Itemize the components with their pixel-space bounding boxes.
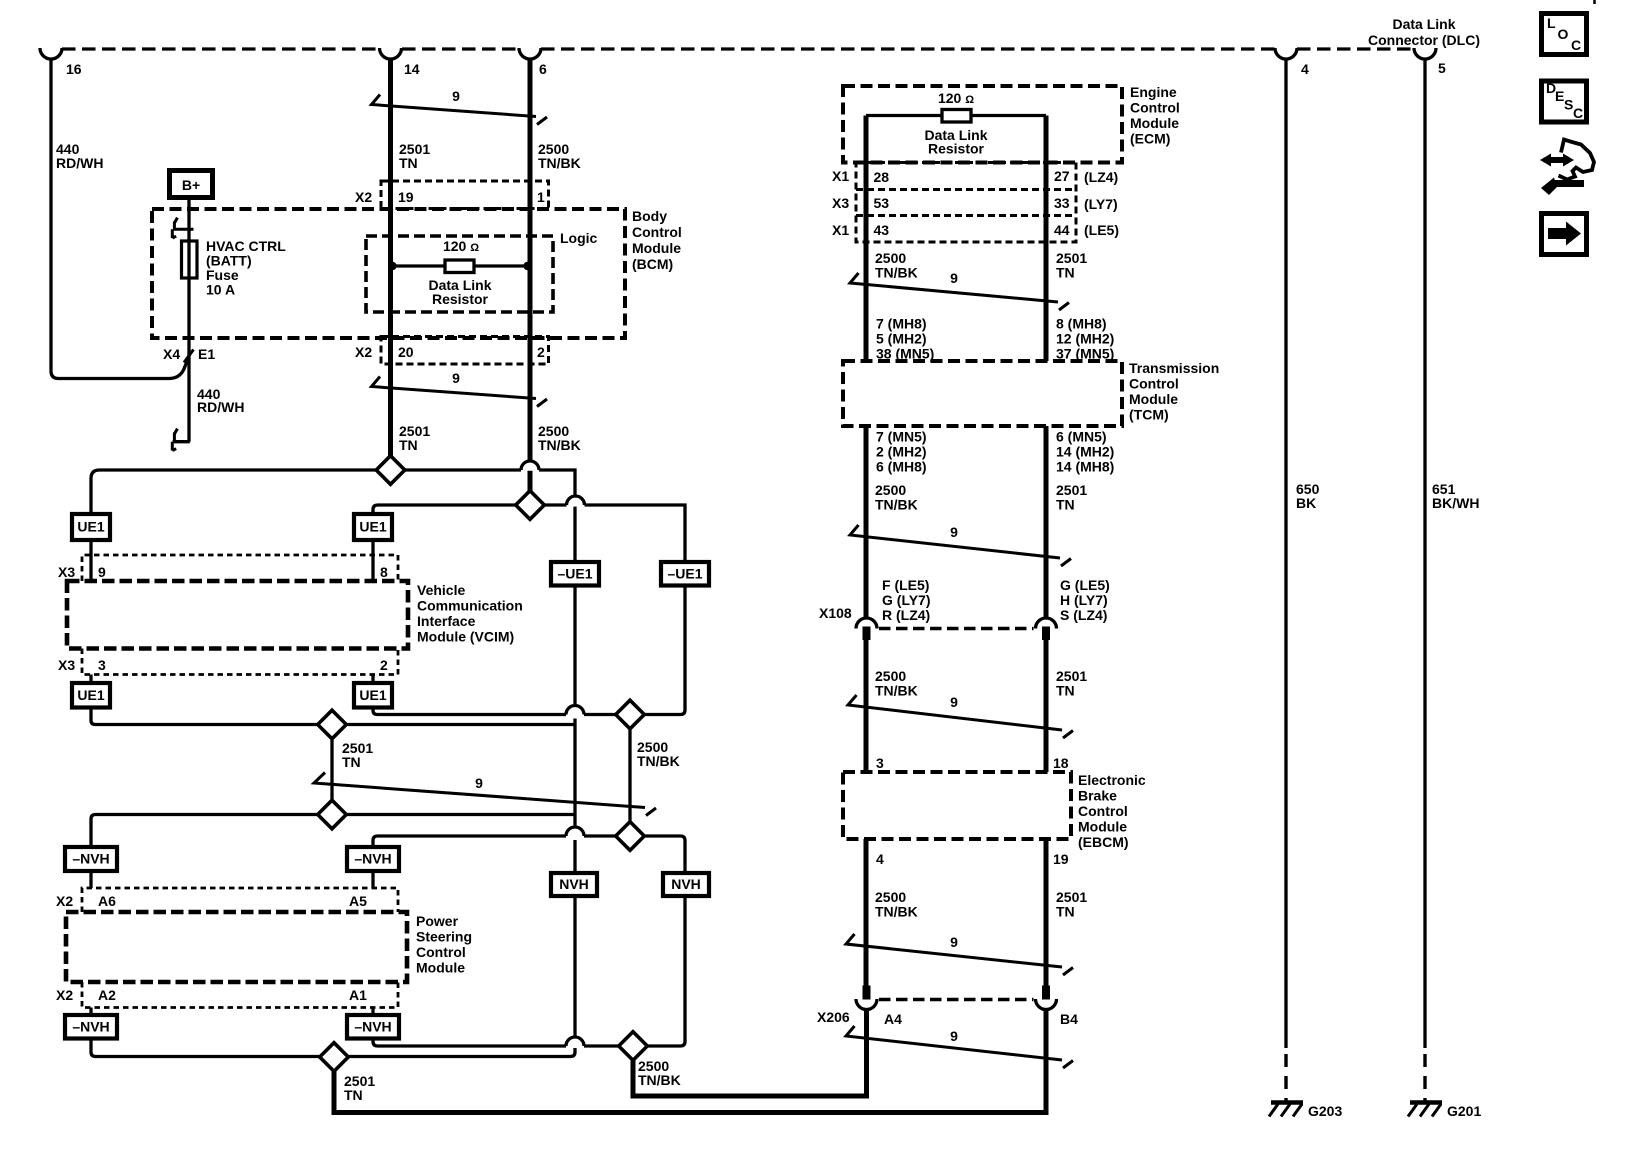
svg-text:S (LZ4): S (LZ4) [1060,607,1107,623]
svg-text:Module: Module [1078,819,1127,835]
vertical -UE1 2501 drop x575 (broken at hops) [573,586,576,874]
data link resistor wire inside ECM [866,114,1046,117]
svg-text:X2: X2 [56,987,73,1003]
box UE1 top-right (VCIM pin 8) [354,514,392,540]
box -UE1 right [661,562,709,586]
svg-text:X206: X206 [817,1009,850,1025]
svg-text:9: 9 [950,694,958,710]
svg-text:9: 9 [475,775,483,791]
svg-text:BK: BK [1296,495,1316,511]
BCM outer dashed box (contains fuse + logic) [152,209,625,338]
svg-text:C: C [1571,37,1581,53]
svg-text:Steering: Steering [416,929,472,945]
svg-text:NVH: NVH [559,876,589,892]
svg-text:8: 8 [380,564,388,580]
svg-text:H (LY7): H (LY7) [1060,592,1108,608]
BCM connector pin row X2: pins 19 / 1 [381,181,549,209]
svg-text:BK/WH: BK/WH [1432,495,1479,511]
wire 2500 between S4 and S6 [628,729,631,822]
svg-text:X1: X1 [832,222,849,238]
svg-text:TN/BK: TN/BK [875,904,918,920]
EBCM module dashed box [843,772,1071,839]
svg-text:7 (MH8): 7 (MH8) [876,316,927,332]
wire 650 BK from DLC pin 4 down to G203 [1284,60,1287,1049]
svg-text:B+: B+ [182,177,200,193]
svg-text:5 (MH2): 5 (MH2) [876,331,927,347]
svg-text:UE1: UE1 [359,519,386,535]
svg-text:A2: A2 [98,987,116,1003]
svg-text:Control: Control [416,944,466,960]
in-line connector X206 right half (pin + arc) [1042,986,1050,1000]
ECM module dashed box [843,86,1122,163]
svg-text:1: 1 [537,189,545,205]
wire 2501 bottom run from S7 to X206 pin B4 [334,1010,1046,1113]
DLC pin 6 terminal hook [519,48,541,59]
wire 2500 TN/BK right column x866 segments [864,116,869,987]
svg-text:A6: A6 [98,893,116,909]
svg-text:X3: X3 [832,195,849,211]
svg-text:9: 9 [950,1028,958,1044]
svg-text:–NVH: –NVH [354,851,391,867]
box UE1 bottom-right (VCIM pin 2) [354,683,392,708]
svg-text:X1: X1 [832,168,849,184]
svg-text:33: 33 [1054,195,1070,211]
svg-text:6: 6 [539,61,547,77]
wire 2501 line y1056 from PSCM pin A2 through splice S7 [91,1039,571,1057]
svg-text:(LY7): (LY7) [1084,196,1118,212]
VCIM pin row X3: pins 9 / 8 [82,555,398,581]
wire 2501 line y814 from PSCM pin A6 to NVH vertical [91,815,574,848]
icon box DESC [1542,81,1587,122]
wire 440 RD/WH from DLC pin 16 down and right to X4 E1 [51,60,188,379]
svg-text:RD/WH: RD/WH [197,399,244,415]
svg-text:G (LY7): G (LY7) [882,592,931,608]
svg-text:TN: TN [1056,497,1075,513]
svg-text:(BCM): (BCM) [632,256,673,272]
svg-text:14 (MH2): 14 (MH2) [1056,444,1114,460]
svg-text:Module: Module [1129,391,1178,407]
svg-text:TN: TN [342,754,361,770]
svg-text:(LZ4): (LZ4) [1084,169,1118,185]
svg-text:X2: X2 [355,189,372,205]
svg-text:TN/BK: TN/BK [875,497,918,513]
svg-text:Interface: Interface [417,613,476,629]
svg-text:Power: Power [416,913,459,929]
svg-text:3: 3 [876,755,884,771]
resistor R ECM 120 ohm body [942,110,971,123]
svg-text:Module: Module [632,240,681,256]
svg-text:Control: Control [632,224,682,240]
svg-text:–NVH: –NVH [354,1019,391,1035]
ECM pin row box X1/X3/X1 [856,163,1076,243]
svg-text:Communication: Communication [417,598,523,614]
svg-text:TN: TN [1056,683,1075,699]
B+ battery feed terminal [170,171,213,198]
X108 dashed link [879,627,1034,631]
ground G201 [1410,1100,1442,1105]
svg-text:X108: X108 [819,605,852,621]
svg-text:A4: A4 [884,1011,902,1027]
svg-text:2: 2 [537,344,545,360]
svg-text:F (LE5): F (LE5) [882,577,929,593]
fuse clip symbol [172,218,193,238]
svg-text:6 (MN5): 6 (MN5) [1056,429,1107,445]
svg-text:9: 9 [98,564,106,580]
PSCM module dashed box [66,912,407,982]
twisted pair symbol 9 (EBCM to X206) [846,934,1073,975]
svg-text:18: 18 [1053,755,1069,771]
svg-text:9: 9 [950,934,958,950]
svg-text:X2: X2 [355,344,372,360]
svg-text:Resistor: Resistor [928,141,985,157]
svg-text:19: 19 [1053,851,1069,867]
svg-text:Logic: Logic [560,230,598,246]
svg-text:Resistor: Resistor [432,291,489,307]
svg-text:Engine: Engine [1130,84,1177,100]
wire 2500 bottom run from S8 to X206 pin A4 [633,1010,867,1097]
svg-text:5: 5 [1438,60,1446,76]
splice diamond S5 on 2501 [318,800,347,829]
wire 2500 TN/BK from DLC pin 6 down to splice (gap at crossover) [528,60,533,491]
box UE1 top-left (VCIM pin 9) [72,514,110,540]
svg-text:Module: Module [1130,115,1179,131]
svg-text:Body: Body [632,208,667,224]
svg-text:B4: B4 [1060,1011,1078,1027]
svg-text:9: 9 [950,524,958,540]
wire 2500 line y836 from PSCM pin A5 through splice S6 to NVH right [373,836,685,873]
svg-text:44: 44 [1054,222,1070,238]
BCM Logic dashed box [366,236,553,312]
junction dot right [523,262,531,270]
svg-text:X3: X3 [58,657,75,673]
X206 dashed link [879,998,1034,1002]
svg-text:TN/BK: TN/BK [538,155,581,171]
box -NVH (PSCM pin A6) [65,847,117,871]
wire hop over 2500 at x530 [521,461,539,470]
svg-text:TN: TN [344,1087,363,1103]
svg-text:Vehicle: Vehicle [417,582,465,598]
svg-text:G201: G201 [1447,1103,1481,1119]
wire 2501 TN right column x1046 segments [1044,116,1049,987]
wire stubs -NVH boxes to PSCM pin rows [91,871,373,1015]
box -NVH (PSCM pin A2) [65,1015,117,1039]
svg-text:2: 2 [380,657,388,673]
wire 2501 from VCIM pin 3 along y724 to -UE1 vertical [91,708,574,725]
corner registration tick [1593,0,1596,4]
svg-text:G203: G203 [1308,1103,1342,1119]
svg-text:A5: A5 [349,893,367,909]
wire hop over x575 vertical at y714 [566,706,584,715]
ground G203 [1271,1100,1303,1105]
svg-text:4: 4 [876,851,884,867]
in-line connector X4 pin E1 slash [184,350,194,363]
svg-text:UE1: UE1 [77,687,104,703]
svg-text:10 A: 10 A [206,282,235,298]
svg-text:43: 43 [874,222,890,238]
svg-text:X2: X2 [56,893,73,909]
svg-text:TN: TN [1056,265,1075,281]
twisted pair symbol 9 (TCM to X108) [850,525,1071,566]
svg-text:Control: Control [1130,100,1180,116]
splice diamond S3 on 2501 [318,710,347,739]
svg-text:8 (MH8): 8 (MH8) [1056,316,1107,332]
svg-text:–UE1: –UE1 [557,566,592,582]
svg-text:Module: Module [416,960,465,976]
twisted pair symbol 9 (below BCM) [372,377,548,407]
svg-text:19: 19 [398,189,414,205]
svg-text:L: L [1547,15,1556,31]
svg-text:TN/BK: TN/BK [875,265,918,281]
svg-text:Control: Control [1129,376,1179,392]
DLC dashed connector bus line [62,47,1414,50]
box NVH right [663,873,709,896]
junction dot left [388,262,396,270]
svg-text:G (LE5): G (LE5) [1060,577,1110,593]
wire stubs UE1 boxes to VCIM pin rows [91,539,373,683]
resistor R BCM 120 ohm body [445,260,474,273]
icon hotlink scribble arrows [1540,140,1594,196]
DLC pin 14 terminal hook [380,48,402,59]
DLC pin 5 terminal hook [1414,48,1436,59]
svg-text:X3: X3 [58,564,75,580]
DLC pin 4 terminal hook [1275,48,1297,59]
splice diamond S4 on 2500 [616,700,645,729]
svg-text:–NVH: –NVH [72,851,109,867]
box -NVH (PSCM pin A5) [347,847,399,871]
svg-text:(TCM): (TCM) [1129,407,1169,423]
svg-text:UE1: UE1 [359,687,386,703]
svg-text:S: S [1564,97,1573,113]
twisted pair symbol 9 (DLC to BCM) [372,95,548,125]
svg-text:–UE1: –UE1 [667,566,702,582]
svg-text:R (LZ4): R (LZ4) [882,607,930,623]
svg-text:Control: Control [1078,803,1128,819]
wire continuation hook (440 RD/WH continues) [172,429,177,451]
splice diamond S8 on 2500 [619,1032,648,1061]
box UE1 bottom-left (VCIM pin 3) [72,683,110,708]
svg-text:14 (MH8): 14 (MH8) [1056,459,1114,475]
in-line connector X108 left half (arc + pin) [856,618,877,629]
svg-text:TN: TN [399,437,418,453]
svg-text:NVH: NVH [671,876,701,892]
TCM module dashed box [843,361,1122,426]
PSCM pin row X2: pins A2 / A1 [82,982,398,1008]
svg-text:9: 9 [452,88,460,104]
svg-text:7 (MN5): 7 (MN5) [876,429,927,445]
svg-text:–NVH: –NVH [72,1019,109,1035]
wire hop over x575 vertical at y836 [566,827,584,836]
VCIM pin row X3: pins 3 / 2 [82,649,398,675]
wire 2500 line y1046 from PSCM pin A1 to splice S8 [373,1039,619,1047]
fuse HVAC CTRL (BATT) Fuse 10 A body [182,241,198,278]
svg-text:Connector (DLC): Connector (DLC) [1368,32,1480,48]
svg-text:A1: A1 [349,987,367,1003]
svg-text:TN/BK: TN/BK [875,683,918,699]
in-line connector X206 left half (pin + arc) [863,986,871,1000]
svg-text:UE1: UE1 [77,519,104,535]
svg-text:TN: TN [399,155,418,171]
splice diamond S6 on 2500 [616,822,645,851]
svg-text:2 (MH2): 2 (MH2) [876,444,927,460]
svg-text:12 (MH2): 12 (MH2) [1056,331,1114,347]
svg-text:14: 14 [404,61,420,77]
svg-text:TN/BK: TN/BK [538,437,581,453]
wire 2501 between S3 and S5 [330,739,333,800]
wire NVH right vertical lower segment to splice S8 [647,896,685,1046]
wire from B+ through HVAC fuse down to X4 E1 and stub hook [173,200,190,442]
splice diamond S7 on 2501 [320,1043,349,1072]
svg-text:E1: E1 [198,346,215,362]
svg-text:3: 3 [98,657,106,673]
wire 2500 from VCIM pin 2 along y714 to splice S4 [373,708,616,715]
icon box LOC [1542,14,1587,55]
svg-text:28: 28 [874,169,890,185]
svg-text:(EBCM): (EBCM) [1078,834,1129,850]
twisted pair symbol 9 (VCIM to PSCM) [314,773,656,816]
svg-text:9: 9 [950,270,958,286]
BCM connector pin row X2: pins 20 / 2 [381,337,549,365]
twisted pair symbol 9 (X206 to grounds run) [846,1026,1073,1068]
svg-text:27: 27 [1054,168,1070,184]
svg-text:(ECM): (ECM) [1130,131,1170,147]
svg-text:Transmission: Transmission [1129,360,1219,376]
wire 651 BK/WH from DLC pin 5 down to G201 [1423,60,1426,1049]
wire 2500 branch line y505 from VCIM pin 8 to splice to -UE1 drop [373,505,685,562]
splice diamond S2 on 2500 [516,491,545,520]
svg-text:C: C [1573,105,1583,121]
icon box right-arrow [1542,214,1587,255]
svg-text:20: 20 [398,344,414,360]
box NVH left [551,873,597,896]
svg-text:6 (MH8): 6 (MH8) [876,459,927,475]
svg-text:TN/BK: TN/BK [638,1072,681,1088]
svg-text:16: 16 [66,61,82,77]
wire hop over -UE1 drop at x575 [567,496,585,505]
data link resistor wire inside BCM [391,264,531,267]
svg-text:9: 9 [452,370,460,386]
svg-text:RD/WH: RD/WH [56,155,103,171]
svg-text:4: 4 [1301,61,1309,77]
in-line connector X108 right half (arc + pin) [1036,618,1057,629]
twisted pair symbol 9 (X108 to EBCM) [848,695,1073,738]
DLC pin 16 terminal hook [40,48,62,59]
svg-text:Data Link: Data Link [1392,16,1455,32]
wire 2501 branch line y470 from VCIM pin 9 to splice to -UE1 drop [91,470,575,562]
wire NVH left vertical lower segment joining y1056 line [571,896,576,1057]
svg-text:O: O [1558,26,1569,42]
VCIM module dashed box [67,581,408,649]
svg-text:TN: TN [1056,904,1075,920]
svg-text:E: E [1555,88,1564,104]
svg-text:X4: X4 [163,346,180,362]
wire hop over x575 vertical at y1046 [566,1037,584,1046]
svg-text:Electronic: Electronic [1078,772,1146,788]
vertical -UE1 2500 drop x685 to splice S4 [644,586,685,715]
svg-text:53: 53 [874,195,890,211]
twisted pair symbol 9 (ECM to TCM) [850,273,1069,310]
svg-text:TN/BK: TN/BK [637,753,680,769]
splice diamond S1 on 2501 [376,456,405,485]
box -UE1 left [551,562,599,586]
PSCM pin row X2: pins A6 / A5 [82,888,398,912]
svg-text:Brake: Brake [1078,788,1117,804]
svg-text:Module (VCIM): Module (VCIM) [417,629,514,645]
box -NVH (PSCM pin A1) [347,1015,399,1039]
wire 2501 TN from DLC pin 14 down to splice [388,60,393,456]
svg-text:(LE5): (LE5) [1084,222,1119,238]
